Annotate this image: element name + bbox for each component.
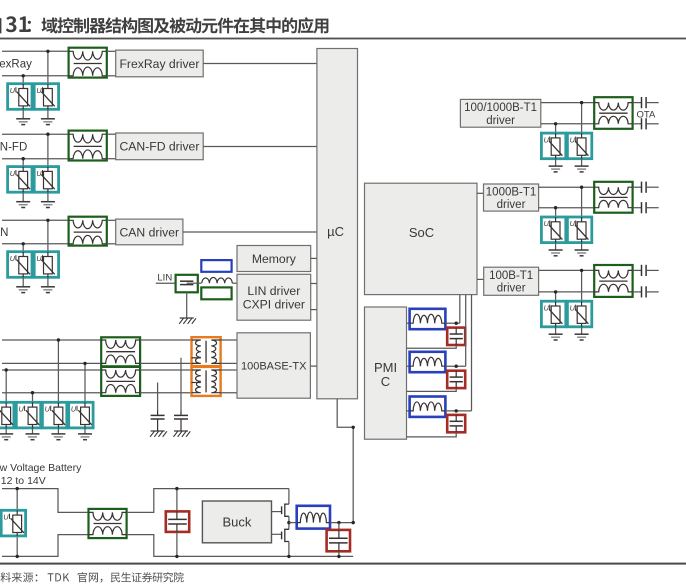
ground 100B-T1 1	[549, 327, 563, 340]
ground FrexRay 2	[41, 109, 55, 124]
common-mode choke 1000B-T1	[594, 182, 632, 213]
common-mode choke 100B-T1	[594, 265, 632, 297]
wire cap 3 return	[407, 432, 457, 437]
wire pair1+ in	[2, 339, 101, 341]
ground 100/1000B-T1 1	[549, 159, 563, 172]
wire inductor 2 to junction	[445, 365, 465, 367]
capacitor 100/1000B-T1 low	[642, 118, 647, 129]
svg-text:U: U	[36, 169, 42, 178]
junction CAN bottom	[22, 242, 25, 245]
wire inductor 1 to junction	[445, 322, 459, 324]
svg-text:FrexRay: FrexRay	[0, 58, 32, 70]
wire drop 100BASE-TX ESD2	[32, 393, 34, 403]
svg-text:U: U	[544, 135, 550, 144]
junction 100B-T1 bottom	[554, 290, 557, 293]
block PMIC	[365, 307, 407, 439]
wire cap 1 return	[407, 345, 457, 348]
junction PMIC filter 1	[455, 322, 458, 325]
wire LIN driver to uC 2	[311, 309, 317, 311]
ground 100BASE-TX ESD1	[0, 428, 13, 440]
title number 31	[6, 16, 29, 32]
svg-text:SoC: SoC	[409, 225, 434, 240]
ground LIN	[179, 318, 196, 324]
wire 1000B-T1 low	[539, 207, 595, 209]
wire LIN to coil	[187, 282, 202, 284]
wire transformer A to PHY high	[221, 339, 237, 341]
block CAN driver	[116, 219, 183, 245]
common-mode choke 100/1000B-T1	[594, 97, 632, 129]
capacitor PMIC C2 (red)	[447, 371, 465, 388]
svg-text:driver: driver	[497, 199, 526, 211]
wire tap A down	[180, 358, 182, 411]
block 1000B-T1 driver	[484, 184, 539, 211]
svg-text:U: U	[10, 254, 16, 263]
wire fet node	[288, 516, 290, 529]
wire 100B-T1 high	[539, 269, 595, 271]
svg-text:CAN driver: CAN driver	[120, 225, 180, 239]
wire choke to FrexRay driver low	[107, 75, 116, 77]
wire inductor to node	[330, 522, 353, 524]
junction 100B-T1 top	[580, 269, 583, 272]
ferrite bead placeholder blue (LIN)	[201, 260, 231, 272]
ESD protection 100BASE-TX 2	[16, 402, 40, 428]
wire drop 1000B-T1 ESD2	[581, 187, 583, 217]
capacitor 100B-T1 high	[642, 265, 647, 276]
wire drop 1000B-T1 ESD1	[555, 208, 557, 217]
inductor PMIC L1 (blue)	[410, 309, 446, 329]
junction battery top	[16, 487, 19, 490]
wire uC bottom down	[337, 399, 353, 428]
wire choke A to transformer A high	[140, 339, 191, 341]
wire battery ESD drop top	[16, 489, 18, 511]
junction buck out cap bottom	[337, 555, 340, 558]
svg-text:LIN: LIN	[157, 273, 172, 284]
wire choke to buck bottom	[127, 535, 354, 557]
ESD protection 100BASE-TX 3	[42, 402, 66, 428]
wire CAN-FD low	[2, 158, 69, 160]
wire 100B-T1 choke out high	[633, 269, 642, 271]
wire drop CAN-FD ESD2	[47, 134, 49, 166]
wire FrexRay low	[2, 75, 69, 77]
wire 1000B-T1 out low	[646, 207, 659, 209]
junction CAN-FD top	[46, 133, 49, 136]
ESD protection FrexRay 2	[34, 84, 58, 110]
wire pair2- in	[2, 392, 101, 394]
junction FrexRay bottom	[22, 74, 25, 77]
junction 1000B-T1 top	[580, 186, 583, 189]
wire battery bottom rail	[2, 535, 89, 557]
wire transformer B to PHY low	[221, 392, 237, 394]
wire battery top rail	[2, 489, 89, 513]
svg-text:U: U	[3, 513, 9, 522]
title fragment 图 (cut at left edge)	[0, 18, 1, 33]
svg-text:100B-T1: 100B-T1	[489, 270, 533, 282]
wire 100B-T1 out low	[646, 291, 659, 293]
junction 100BASE-TX 2	[31, 391, 34, 394]
wire inductor 3 to junction	[445, 410, 471, 412]
label CAN	[0, 227, 8, 239]
wire SoC to 1000B-T1 driver	[477, 192, 484, 194]
junction buck gnd	[287, 555, 290, 558]
svg-text:100BASE-TX: 100BASE-TX	[241, 361, 307, 373]
ESD protection 100B-T1 2	[567, 301, 591, 327]
inductor LIN series	[202, 277, 233, 283]
svg-text:12 to 14V: 12 to 14V	[1, 475, 46, 487]
wire LIN driver to uC 1	[311, 283, 317, 285]
wire drop 100/1000B-T1 ESD2	[581, 103, 583, 134]
capacitor buck input (red)	[166, 511, 189, 532]
svg-text:LIN driver: LIN driver	[247, 284, 300, 298]
svg-text:OTA: OTA	[637, 110, 656, 121]
title text 域控制器结构图及被动元件在其中的应用	[28, 17, 329, 33]
block SoC	[365, 183, 478, 294]
wire output cap drop	[338, 523, 340, 530]
ground FrexRay 1	[16, 109, 30, 124]
ferrite bead placeholder green (LIN)	[201, 287, 231, 299]
junction buck sw node	[287, 521, 290, 524]
wire drop FrexRay ESD1	[22, 76, 24, 84]
wire CAN-FD driver to uC	[203, 145, 317, 147]
wire 100/1000B-T1 choke out low	[633, 123, 642, 125]
junction uC-buck node	[352, 426, 355, 429]
junction buck input top	[175, 487, 178, 490]
wire CAN-FD high	[2, 133, 69, 135]
wire choke to FrexRay driver high	[107, 50, 116, 52]
ESD protection 100BASE-TX 4	[69, 402, 93, 428]
block 100B-T1 driver	[484, 267, 539, 295]
wire 100/1000B-T1 out low	[646, 123, 659, 125]
wire choke to CAN driver high	[107, 219, 116, 221]
transistor Q1 (high side)	[272, 504, 289, 516]
svg-text:U: U	[570, 219, 576, 228]
capacitor 1000B-T1 high	[642, 182, 647, 193]
wire junction 2 up to SoC	[465, 295, 467, 367]
wire drop 100B-T1 ESD1	[555, 292, 557, 301]
capacitor tap B	[151, 411, 165, 432]
wire node down to buck output	[352, 427, 354, 522]
wire drop CAN ESD1	[22, 244, 24, 252]
svg-text:U: U	[19, 405, 25, 414]
junction battery bottom	[16, 555, 19, 558]
wire choke A to transformer A low	[140, 362, 191, 364]
common-mode choke 100BASE-TX B	[101, 367, 140, 396]
wire CAN driver to uC	[183, 231, 317, 233]
ground 100/1000B-T1 2	[575, 159, 589, 172]
wire output cap to rail	[338, 551, 340, 556]
common-mode choke CAN-FD	[69, 131, 107, 161]
svg-text:CAN-FD driver: CAN-FD driver	[119, 140, 199, 154]
wire battery ESD drop bottom	[16, 536, 18, 557]
wire drop CAN ESD2	[47, 220, 49, 251]
wire PMIC to inductor 1	[407, 322, 410, 324]
wire 1000B-T1 choke out high	[633, 186, 642, 188]
capacitor 100B-T1 low	[642, 286, 647, 297]
wire choke B to transformer B high	[140, 369, 191, 371]
wire PMIC to inductor 3	[407, 410, 410, 412]
ESD protection 100/1000B-T1 1	[541, 133, 565, 159]
footer separator line	[0, 563, 686, 565]
junction buck out node	[352, 521, 355, 524]
title underline	[0, 38, 686, 40]
transistor Q2 (low side)	[272, 529, 289, 541]
capacitor 100/1000B-T1 high	[642, 97, 647, 108]
transformer 100BASE-TX B (orange)	[192, 367, 221, 396]
wire 100/1000B-T1 out high	[646, 102, 659, 104]
wire input cap drop	[176, 489, 178, 512]
wire 100B-T1 choke out low	[633, 291, 642, 293]
wire Memory to uC	[311, 257, 317, 259]
ESD protection 100B-T1 1	[541, 301, 565, 327]
svg-text:Memory: Memory	[252, 252, 297, 266]
junction PMIC filter 3	[455, 409, 458, 412]
junction FrexRay top	[46, 50, 49, 53]
junction 1000B-T1 bottom	[554, 206, 557, 209]
label CAN-FD	[0, 141, 27, 153]
common-mode choke CAN	[69, 217, 107, 246]
wire pair2+ in	[2, 369, 101, 371]
svg-text:CAN-FD: CAN-FD	[0, 141, 27, 153]
ESD protection FrexRay 1	[8, 84, 32, 110]
wire pair1- in	[2, 362, 101, 364]
wire drop 100B-T1 ESD2	[581, 270, 583, 301]
svg-text:U: U	[544, 219, 550, 228]
wire junction 3 up to SoC	[471, 295, 473, 411]
block uC	[317, 49, 358, 399]
capacitor tap A	[174, 411, 188, 432]
label uC	[327, 224, 344, 239]
svg-text:U: U	[10, 169, 16, 178]
wire 1000B-T1 choke out low	[633, 207, 642, 209]
wire junction 1 up to SoC	[459, 295, 461, 324]
wire 100/1000B-T1 low	[541, 123, 594, 125]
wire SoC to 100B-T1 driver	[477, 278, 484, 280]
label Low Voltage Battery	[0, 462, 82, 474]
svg-text:Low Voltage Battery: Low Voltage Battery	[0, 462, 82, 474]
wire CAN high	[2, 219, 69, 221]
transformer 100BASE-TX A (orange)	[192, 337, 221, 366]
wire choke to CAN-FD driver high	[107, 133, 116, 135]
svg-text:PMI: PMI	[374, 360, 397, 375]
svg-text:FrexRay driver: FrexRay driver	[119, 57, 199, 71]
junction 100BASE-TX 3	[57, 338, 60, 341]
svg-text:driver: driver	[486, 115, 515, 127]
label OTA	[637, 110, 656, 121]
block LIN driver CXPI driver	[237, 274, 311, 320]
common-mode choke battery	[89, 509, 127, 538]
ground CAN 1	[16, 277, 30, 292]
wire 100B-T1 out high	[646, 269, 659, 271]
ESD protection 1000B-T1 2	[567, 217, 591, 243]
svg-text:U: U	[45, 405, 51, 414]
ground 100BASE-TX ESD2	[26, 428, 40, 440]
wire drop 100BASE-TX ESD3	[57, 340, 59, 402]
ground tap B	[150, 431, 167, 437]
junction buck input bottom	[175, 555, 178, 558]
svg-text:100/1000B-T1: 100/1000B-T1	[464, 102, 537, 114]
svg-text:CAN: CAN	[0, 227, 8, 239]
wire 100/1000B-T1 high	[541, 102, 594, 104]
block CAN-FD driver	[116, 133, 204, 160]
ESD protection CAN 2	[34, 252, 58, 278]
label FrexRay	[0, 58, 32, 70]
wire 1000B-T1 high	[539, 186, 595, 188]
capacitor PMIC C3 (red)	[447, 415, 465, 432]
ground CAN-FD 2	[41, 192, 55, 207]
wire sw to inductor	[289, 522, 297, 524]
wire drop 100/1000B-T1 ESD1	[555, 124, 557, 133]
wire choke B to transformer B low	[140, 392, 191, 394]
wire rail down to hs-fet	[288, 489, 290, 505]
wire input cap to rail	[176, 532, 178, 557]
ground 100BASE-TX ESD4	[78, 428, 92, 440]
ESD protection CAN-FD 2	[34, 167, 58, 193]
junction 100BASE-TX 1	[5, 368, 8, 371]
wire cap 2 return	[407, 388, 457, 391]
label PMIC	[374, 360, 397, 389]
ESD protection CAN 1	[8, 252, 32, 278]
wire ls-fet to rail	[288, 542, 290, 557]
svg-text:CXPI driver: CXPI driver	[243, 297, 305, 311]
svg-text:U: U	[10, 86, 16, 95]
wire coil to LIN driver	[232, 282, 237, 284]
footer source text 资料来源：TDK官网，民生证券研究院	[1, 572, 184, 583]
wire 1000B-T1 out high	[646, 186, 659, 188]
junction PMIC filter 2	[455, 365, 458, 368]
wire transformer B to PHY high	[221, 369, 237, 371]
wire drop 100BASE-TX ESD1	[5, 370, 7, 402]
wire PMIC to inductor 2	[407, 365, 410, 367]
wire drop CAN-FD ESD1	[22, 159, 24, 167]
wire 100BASE-TX to uC	[310, 365, 317, 367]
ESD protection battery	[1, 510, 25, 536]
svg-text:U: U	[570, 303, 576, 312]
wire transformer A to PHY low	[221, 362, 237, 364]
svg-text:C: C	[381, 374, 390, 389]
capacitor 1000B-T1 low	[642, 202, 647, 213]
svg-text:U: U	[544, 303, 550, 312]
common-mode choke FrexRay	[69, 48, 107, 78]
label SoC	[409, 225, 434, 240]
wire CAN low	[2, 243, 69, 245]
inductor buck output (blue)	[297, 506, 330, 529]
inductor PMIC L3 (blue)	[410, 397, 446, 417]
svg-text:µC: µC	[327, 224, 344, 239]
wire choke to buck top	[127, 489, 289, 513]
wire drop 100BASE-TX ESD4	[84, 363, 86, 402]
wire tap B down	[157, 383, 159, 411]
ground 100B-T1 2	[575, 327, 589, 340]
ESD protection 1000B-T1 1	[541, 217, 565, 243]
wire LIN in	[156, 282, 187, 284]
junction CAN-FD bottom	[22, 157, 25, 160]
block 100BASE-TX	[237, 333, 310, 398]
junction 100/1000B-T1 top	[580, 101, 583, 104]
feedthrough capacitor LIN (green)	[176, 275, 198, 293]
ground 100BASE-TX ESD3	[51, 428, 65, 440]
svg-text:driver: driver	[497, 283, 526, 295]
wire choke to CAN driver low	[107, 243, 116, 245]
ESD protection CAN-FD 1	[8, 167, 32, 193]
block FrexRay driver	[116, 50, 204, 77]
svg-text:U: U	[36, 86, 42, 95]
svg-text:1000B-T1: 1000B-T1	[486, 186, 537, 198]
inductor PMIC L2 (blue)	[410, 352, 446, 372]
common-mode choke 100BASE-TX A	[101, 337, 140, 366]
block Memory	[237, 246, 311, 272]
ground CAN-FD 1	[16, 192, 30, 207]
junction buck out cap	[337, 521, 340, 524]
ground tap A	[174, 431, 191, 437]
ESD protection 100/1000B-T1 2	[567, 133, 591, 159]
svg-text:U: U	[36, 254, 42, 263]
block Buck	[202, 501, 271, 543]
junction 100/1000B-T1 bottom	[554, 122, 557, 125]
capacitor buck output (red)	[327, 530, 350, 551]
label 12 to 14V	[1, 475, 46, 487]
label LIN	[157, 273, 172, 284]
block 100/1000B-T1 driver	[460, 99, 540, 127]
ground 1000B-T1 1	[549, 243, 563, 256]
ground CAN 2	[41, 277, 55, 292]
wire FrexRay high	[2, 50, 69, 52]
ESD protection 100BASE-TX 1	[0, 402, 14, 428]
junction 100BASE-TX 4	[83, 362, 86, 365]
svg-text:U: U	[71, 405, 77, 414]
capacitor PMIC C1 (red)	[447, 328, 465, 345]
svg-text:U: U	[570, 135, 576, 144]
svg-text:Buck: Buck	[222, 515, 251, 530]
wire FrexRay driver to uC	[203, 63, 317, 65]
wire drop FrexRay ESD2	[47, 51, 49, 83]
wire 100/1000B-T1 choke out high	[633, 102, 642, 104]
wire LIN cap to ground	[186, 292, 188, 318]
wire 100B-T1 low	[539, 291, 595, 293]
ground 1000B-T1 2	[575, 243, 589, 256]
junction CAN top	[46, 219, 49, 222]
wire choke to CAN-FD driver low	[107, 158, 116, 160]
